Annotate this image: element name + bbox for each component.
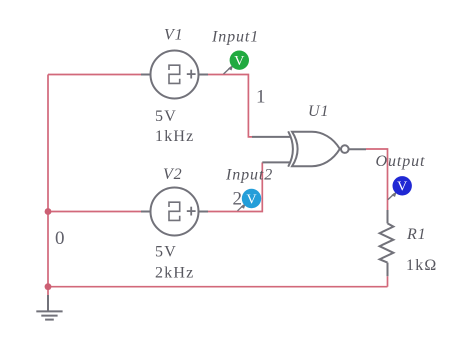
wire: V2 right to gate input 2 (net 2) — [208, 162, 262, 211]
probe Input2 (blue) — [238, 189, 262, 211]
junction dot at V2 / net 0 — [45, 208, 52, 215]
svg-text:V1: V1 — [164, 27, 184, 44]
wire: bottom horizontal return — [48, 286, 388, 288]
XNOR gate U1 — [252, 131, 366, 166]
svg-text:1kHz: 1kHz — [155, 128, 194, 145]
wire: V1 left horizontal — [48, 74, 141, 76]
svg-text:2: 2 — [233, 189, 243, 210]
svg-text:V2: V2 — [163, 166, 183, 183]
probe Output (navy) — [388, 176, 412, 200]
svg-text:V: V — [234, 54, 244, 69]
svg-text:R1: R1 — [406, 226, 427, 243]
svg-text:1kΩ: 1kΩ — [406, 257, 438, 274]
wire: resistor bottom — [387, 276, 389, 287]
svg-text:V: V — [397, 180, 407, 195]
clock source V1 — [141, 51, 208, 99]
svg-text:Input1: Input1 — [211, 29, 259, 46]
wire: V1 right to gate input 1 (net 1) — [208, 75, 252, 137]
clock source V2 — [141, 188, 208, 236]
svg-text:Input2: Input2 — [225, 167, 273, 184]
probe Input1 (green) — [224, 51, 250, 75]
wire: V2 left horizontal — [48, 211, 141, 213]
svg-text:5V: 5V — [155, 244, 177, 261]
wire: left vertical net 0 — [47, 75, 49, 287]
ground — [36, 295, 62, 320]
svg-text:V: V — [246, 192, 256, 207]
wire: ground red stub — [47, 287, 49, 295]
resistor R1 — [380, 210, 394, 276]
svg-text:5V: 5V — [155, 108, 177, 125]
svg-text:Output: Output — [376, 153, 426, 170]
wire: gate output to resistor (net Output) — [366, 149, 388, 210]
svg-text:1: 1 — [256, 87, 266, 108]
svg-text:0: 0 — [55, 228, 65, 249]
junction dot at ground corner — [45, 283, 52, 290]
svg-text:U1: U1 — [308, 103, 329, 120]
svg-text:2kHz: 2kHz — [155, 265, 194, 282]
